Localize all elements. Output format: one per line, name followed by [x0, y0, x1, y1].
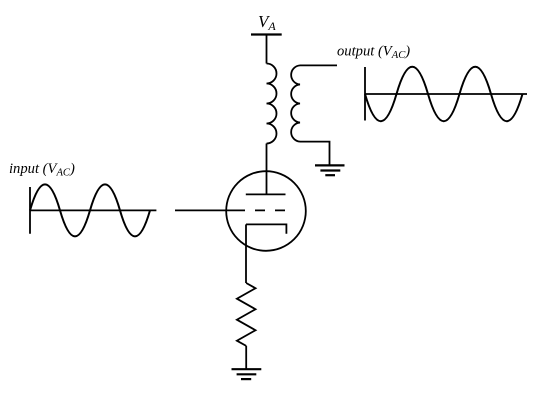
- svg-text:input (VAC): input (VAC): [9, 161, 75, 179]
- power rail VA bar: [251, 33, 282, 35]
- ground secondary: [315, 165, 345, 175]
- triode grid dashes: [255, 209, 285, 211]
- svg-text:output (VAC): output (VAC): [337, 43, 410, 61]
- wire secondary bottom lead: [300, 142, 330, 166]
- inductor L2 secondary: [291, 65, 300, 141]
- output waveform axes: [365, 67, 527, 121]
- triode plate: [246, 193, 286, 195]
- triode V1 envelope: [226, 171, 306, 251]
- svg-text:VA: VA: [258, 12, 276, 33]
- output waveform sine: [365, 67, 523, 121]
- triode cathode: [246, 224, 286, 233]
- input waveform axes: [30, 187, 156, 234]
- wire grid lead: [175, 209, 245, 211]
- wire primary to plate: [266, 144, 268, 195]
- resistor R1: [237, 283, 256, 346]
- wire secondary top lead: [300, 64, 337, 66]
- inductor L1 primary: [267, 64, 277, 144]
- input waveform sine: [30, 184, 150, 236]
- wire cathode to resistor: [245, 224, 247, 283]
- ground cathode: [232, 369, 262, 379]
- wire VA to primary: [266, 35, 268, 64]
- wire resistor to ground: [245, 346, 247, 369]
